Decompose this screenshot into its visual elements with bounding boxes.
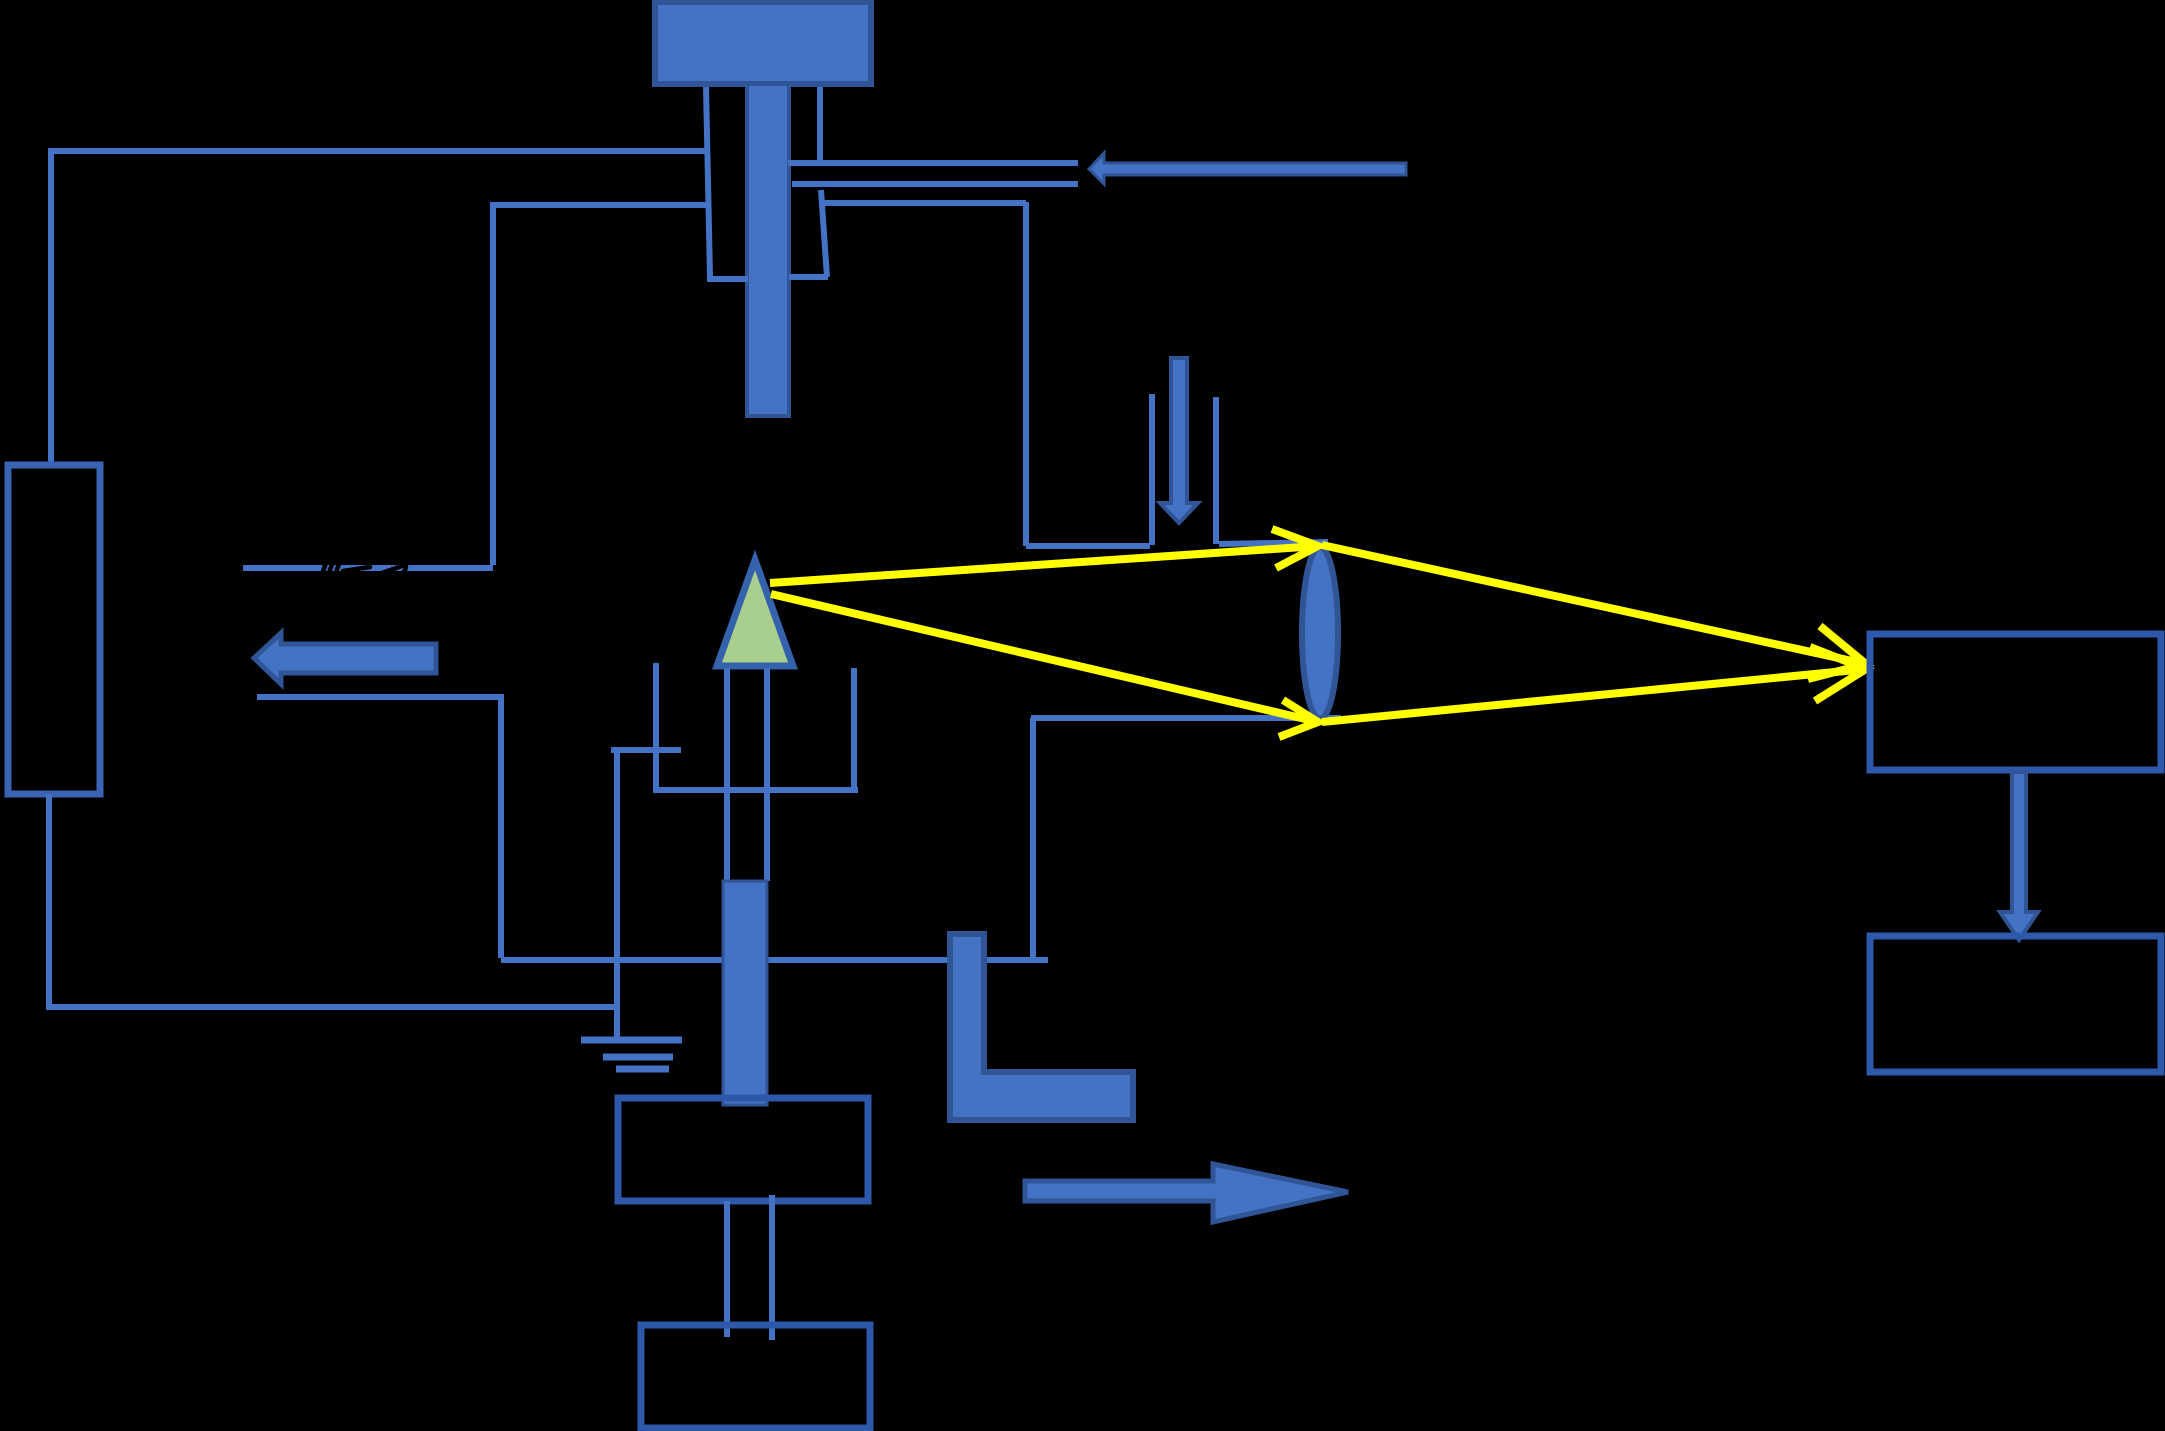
ray arrowhead at detector (lower) (1810, 647, 1866, 701)
slit-to-lens top wire (1219, 542, 1328, 544)
light ray upper: flame to lens top (770, 546, 1318, 583)
outer tube right wall upper (817, 87, 823, 164)
burner mount bracket left wall (653, 663, 659, 790)
outer tube bottom right (789, 274, 828, 280)
wire: left top long horizontal from HV supply to burner tube (48, 148, 706, 154)
burner capillary right wall (764, 668, 770, 881)
ground stub horizontal (611, 747, 681, 753)
flame (green triangle) (717, 560, 793, 666)
emission down arrow (into slit) (1160, 358, 1198, 523)
ground wire vertical (614, 750, 620, 1040)
ray arrowhead at lens top (1272, 529, 1318, 568)
signal down arrow between right boxes (2000, 772, 2038, 940)
light ray upper: lens top to detector (1322, 545, 1866, 664)
wire: left vertical down into HV supply (48, 149, 54, 466)
sample supply box (bottom) (641, 1325, 870, 1428)
fuel pipe upper line (788, 160, 1078, 166)
burner mount bracket right wall (851, 668, 857, 790)
outer tube left wall (706, 87, 710, 277)
acquisition box (right bottom) (1870, 936, 2161, 1072)
ray arrowhead at detector (upper) (1808, 626, 1866, 679)
ground symbol (581, 1040, 682, 1069)
ray arrowhead at lens bottom (1279, 700, 1318, 737)
exhaust block arrow (big, pointing left) (254, 633, 436, 684)
burner drive shaft (thick vertical bar) (747, 84, 789, 416)
wire: HV lead from burner tube left, down, then left (with scribble) (493, 205, 706, 565)
lower collection wire: under lens left then down to PMT mount (1031, 718, 1341, 958)
slit right wall (1213, 397, 1219, 544)
wire: mid-left horizontal under arrow, down, then long right to PMT mount (257, 697, 1048, 960)
wire: below HV supply down then right to ground node (49, 794, 616, 1007)
electrode bar (thick, into pulse box) (723, 881, 767, 1105)
wire: horizontal lead segment with handwriting (243, 565, 493, 571)
high-voltage supply box (left tall rectangle) (8, 465, 100, 794)
motor box (top filled rectangle) (655, 2, 871, 84)
outer tube bottom left (707, 276, 748, 282)
sample line left wall (below middle box) (724, 1201, 730, 1337)
fuel pipe lower line (792, 181, 1078, 187)
slit left wall (1149, 394, 1155, 545)
burner mount bracket bottom (653, 787, 858, 793)
collection wire: from fuel pipe down then right to slit (823, 202, 1150, 546)
PMT mount (L-shaped filled bar) (950, 934, 1133, 1120)
burner capillary left wall (724, 668, 730, 881)
pulse generator box (middle) (618, 1098, 868, 1201)
signal output block arrow (pointing right, bottom middle) (1025, 1164, 1348, 1222)
fuel inlet block arrow (pointing left) (1089, 153, 1406, 184)
sample line right wall (769, 1195, 775, 1340)
detector box (right top) (1870, 634, 2161, 770)
outer tube right wall lower (821, 190, 827, 277)
collection lens (ellipse) (1302, 547, 1338, 719)
scribble (black handwriting) on lead (321, 558, 406, 578)
light ray lower: lens bottom to detector (1322, 669, 1866, 722)
light ray lower: flame to lens bottom (771, 594, 1318, 722)
